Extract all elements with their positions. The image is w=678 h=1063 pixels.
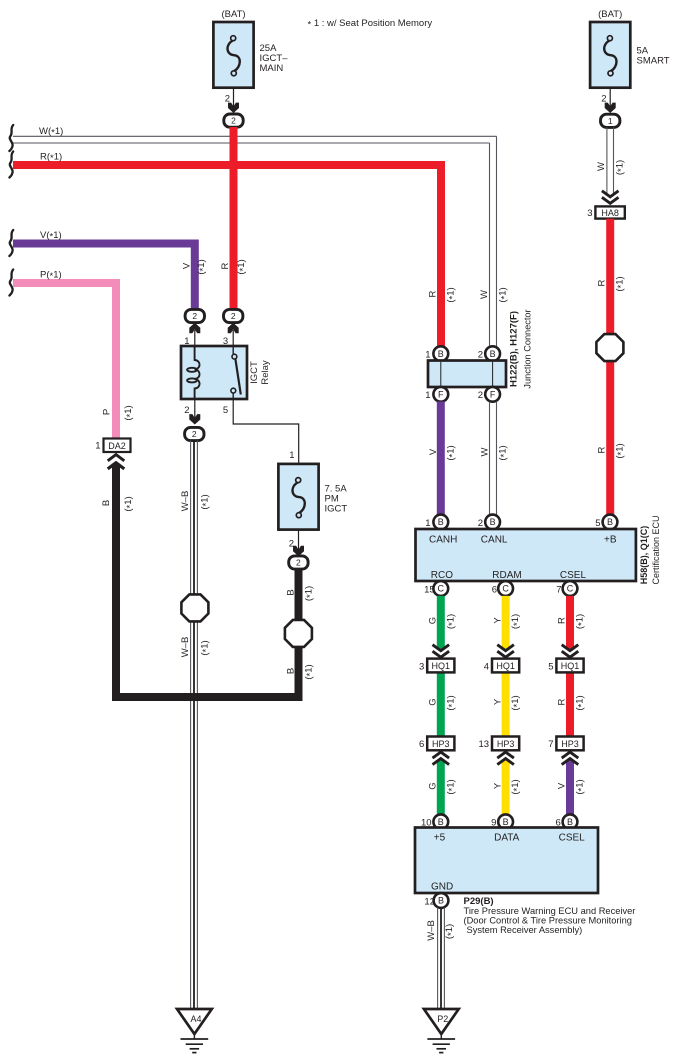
wire V purple from junction to ECU CANH [437, 402, 445, 516]
svg-text:2: 2 [192, 429, 197, 439]
svg-text:C: C [438, 584, 445, 594]
svg-text:(*1): (*1) [575, 779, 588, 794]
svg-text:R: R [596, 446, 607, 453]
svg-text:2: 2 [192, 311, 197, 321]
svg-text:(*1): (*1) [615, 443, 628, 458]
svg-text:C: C [502, 584, 509, 594]
arrow into oval at relay pin 1 [189, 323, 200, 333]
connector oval 2 above relay pin 1 [185, 309, 204, 322]
svg-text:2: 2 [231, 116, 236, 126]
connector DA2 [104, 439, 131, 453]
svg-text:6: 6 [419, 739, 424, 750]
svg-text:HA8: HA8 [601, 208, 619, 218]
svg-text:(*1): (*1) [445, 695, 458, 710]
wire V purple segment to TPWS CSEL [566, 751, 574, 815]
svg-text:(*1): (*1) [575, 614, 588, 629]
svg-text:W: W [596, 162, 607, 171]
continuation mark for V wire [9, 230, 13, 256]
svg-text:B: B [490, 349, 496, 359]
relay coil [187, 346, 199, 399]
wire G from ECU RCO column at x=440.8 [437, 596, 445, 815]
svg-text:IGCT: IGCT [325, 504, 348, 515]
chevron into HQ1 column 3 [433, 645, 450, 661]
chevron out of HP3 column 7 [562, 748, 579, 764]
wire fuse 7.5A lead [298, 530, 300, 555]
svg-text:(*1): (*1) [510, 614, 523, 629]
arrow into oval at relay pin 3 [228, 323, 239, 333]
svg-text:5: 5 [548, 661, 553, 672]
svg-text:R: R [220, 262, 231, 269]
connector HP3 column 13 [492, 737, 519, 751]
svg-text:5: 5 [223, 405, 228, 416]
svg-text:B: B [285, 589, 296, 595]
svg-text:1: 1 [289, 450, 294, 461]
svg-text:V: V [557, 782, 568, 789]
relay IGCT box [181, 346, 247, 399]
svg-text:Tire Pressure Warning ECU and: Tire Pressure Warning ECU and Receiver [464, 906, 636, 916]
fuse 5A SMART [590, 22, 630, 88]
TPWS ECU pin circle 6B [563, 814, 578, 829]
fuse 7.5A PM IGCT [278, 464, 318, 530]
svg-text:R(*1): R(*1) [40, 152, 62, 165]
svg-text:W–B: W–B [426, 920, 437, 941]
connector oval 2 below relay pin 2 [185, 427, 204, 440]
arrow into oval below relay pin 2 [189, 414, 200, 424]
svg-text:13: 13 [479, 739, 490, 750]
svg-text:R: R [428, 290, 439, 297]
wire W white from junction to ECU CANL [490, 402, 497, 516]
svg-text:Y: Y [492, 617, 503, 624]
svg-text:+B: +B [604, 535, 617, 546]
svg-text:DATA: DATA [494, 833, 520, 844]
svg-text:2: 2 [478, 390, 483, 401]
svg-text:CSEL: CSEL [560, 570, 587, 581]
svg-text:R: R [596, 279, 607, 286]
svg-text:CANL: CANL [481, 535, 508, 546]
chevron out of HP3 column 13 [497, 748, 514, 764]
svg-text:RDAM: RDAM [492, 570, 521, 581]
noise filter octagon on B wire [285, 620, 312, 647]
svg-text:W–B: W–B [180, 637, 191, 658]
wire R(*1) red horizontal and down to junction connector [13, 165, 441, 347]
relay switch [231, 346, 241, 399]
svg-text:Relay: Relay [260, 360, 271, 385]
svg-text:W–B: W–B [180, 491, 191, 512]
wire V(*1) purple horizontal and down to relay [13, 244, 195, 311]
TPWS ECU pin circle 12B GND [434, 893, 449, 908]
chevron connector into HA8 [602, 191, 619, 207]
svg-text:IGCT: IGCT [249, 361, 260, 384]
wire R from ECU RCO column at x=570.0 [566, 596, 574, 751]
arrow into connector [605, 103, 616, 113]
wire W-B from TPWS ECU GND to ground P2 [438, 908, 445, 1009]
svg-text:(*1): (*1) [123, 405, 136, 420]
continuation mark for P wire [9, 270, 13, 296]
Certification ECU box H58(B) Q1(C) [416, 529, 636, 581]
connector HP3 column 6 [427, 737, 454, 751]
svg-text:H122(B), H127(F): H122(B), H127(F) [508, 311, 519, 387]
wire W-B white-black from relay to ground A4 [191, 441, 198, 1010]
svg-text:3: 3 [419, 661, 424, 672]
svg-text:(*1): (*1) [303, 664, 316, 679]
chevron out of HP3 column 6 [433, 748, 450, 764]
svg-text:P2: P2 [437, 1014, 448, 1024]
svg-text:(*1): (*1) [615, 276, 628, 291]
svg-text:(*1): (*1) [510, 779, 523, 794]
svg-text:(Door Control & Tire Pressure: (Door Control & Tire Pressure Monitoring [464, 916, 632, 926]
svg-text:3: 3 [587, 208, 592, 219]
svg-text:RCO: RCO [431, 570, 453, 581]
svg-text:5: 5 [595, 518, 600, 529]
ECU pin circle 1B CANH [433, 515, 448, 530]
svg-text:(*1): (*1) [199, 640, 212, 655]
svg-text:B: B [438, 817, 444, 827]
svg-text:(*1): (*1) [303, 586, 316, 601]
svg-text:1: 1 [425, 349, 430, 360]
continuation mark for R wire [9, 152, 13, 178]
wire B black from DA2 down, right, and up to fuse 7.5A oval [116, 464, 299, 698]
svg-text:(*1): (*1) [445, 779, 458, 794]
junction connector pin circle 2F [485, 387, 500, 402]
wire relay pin2 stub [194, 399, 196, 424]
svg-text:R: R [557, 698, 568, 705]
svg-text:H58(B), Q1(C): H58(B), Q1(C) [639, 526, 649, 585]
TPWS ECU pin circle 9B [498, 814, 513, 829]
svg-text:SMART: SMART [637, 56, 670, 67]
svg-text:B: B [490, 517, 496, 527]
svg-text:V: V [181, 262, 192, 269]
svg-text:(*1): (*1) [446, 445, 459, 460]
svg-text:(*1): (*1) [497, 445, 510, 460]
svg-text:HQ1: HQ1 [561, 661, 580, 671]
wire W(*1) white horizontal from left [13, 135, 497, 137]
svg-text:(*1): (*1) [445, 614, 458, 629]
svg-text:(BAT): (BAT) [221, 9, 245, 20]
ECU pin circle 15C RCO [433, 581, 448, 596]
svg-text:DA2: DA2 [108, 441, 126, 451]
svg-text:6: 6 [492, 584, 497, 595]
TPWS ECU pin circle 10B [433, 814, 448, 829]
connector oval 2 below fuse 25A [224, 114, 243, 127]
wire Y from ECU RCO column at x=505.6 [502, 596, 510, 815]
svg-text:W: W [479, 447, 490, 456]
svg-text:7: 7 [548, 739, 553, 750]
svg-text:Junction Connector: Junction Connector [522, 309, 532, 388]
svg-text:* 1 : w/ Seat Position Memory: * 1 : w/ Seat Position Memory [308, 18, 433, 31]
svg-text:1: 1 [95, 441, 100, 452]
svg-text:Y: Y [492, 698, 503, 705]
svg-text:(*1): (*1) [123, 496, 136, 511]
svg-text:MAIN: MAIN [260, 63, 284, 74]
svg-text:GND: GND [431, 882, 453, 893]
svg-text:P: P [102, 409, 113, 415]
ECU pin circle 7C CSEL [563, 581, 578, 596]
svg-text:V(*1): V(*1) [40, 230, 62, 243]
ground A4 [177, 1009, 212, 1053]
svg-text:2: 2 [296, 558, 301, 568]
svg-text:G: G [428, 617, 439, 624]
svg-text:R: R [557, 617, 568, 624]
svg-text:B: B [438, 896, 444, 906]
ECU pin circle 5B +B [603, 515, 618, 530]
connector HQ1 column 4 [492, 659, 519, 673]
svg-text:(*1): (*1) [498, 287, 511, 302]
svg-text:B: B [438, 349, 444, 359]
arrow into connector [228, 103, 239, 113]
svg-text:2: 2 [478, 349, 483, 360]
wire - fuse 5A lead to connector [609, 88, 611, 111]
ground P2 [424, 1009, 459, 1053]
svg-text:(BAT): (BAT) [598, 9, 622, 20]
svg-text:HP3: HP3 [432, 739, 450, 749]
connector HP3 column 7 [556, 737, 583, 751]
wire R red vertical from fuse 25A to relay [230, 127, 238, 310]
svg-text:(*1): (*1) [615, 160, 628, 175]
svg-text:1: 1 [425, 390, 430, 401]
svg-text:G: G [428, 782, 439, 789]
chevron into HQ1 column 5 [562, 645, 579, 661]
noise filter octagon on W-B wire [181, 594, 208, 621]
svg-text:CSEL: CSEL [559, 833, 586, 844]
svg-text:2: 2 [184, 405, 189, 416]
svg-text:(*1): (*1) [575, 695, 588, 710]
svg-text:4: 4 [484, 661, 489, 672]
svg-text:B: B [285, 668, 296, 674]
svg-text:7: 7 [556, 584, 561, 595]
arrow into oval below fuse 7.5A [293, 546, 304, 556]
connector HA8 [595, 206, 624, 218]
svg-text:(*1): (*1) [444, 924, 457, 939]
svg-text:Certification ECU: Certification ECU [651, 515, 661, 584]
svg-text:B: B [101, 500, 112, 506]
fuse 25A IGCT-MAIN [213, 22, 253, 88]
svg-text:1: 1 [425, 518, 430, 529]
svg-text:(*1): (*1) [446, 287, 459, 302]
wire R red from HA8 to ECU +B [606, 219, 614, 515]
chevron into HQ1 column 4 [497, 645, 514, 661]
svg-text:B: B [438, 517, 444, 527]
connector oval 2 below fuse 7.5A [289, 556, 308, 569]
svg-text:HQ1: HQ1 [496, 661, 515, 671]
svg-text:W: W [479, 290, 490, 299]
chevron connector into DA2 [108, 455, 125, 469]
svg-text:G: G [428, 698, 439, 705]
connector oval 2 above relay pin 3 [224, 309, 243, 322]
svg-text:(*1): (*1) [236, 259, 249, 274]
Tire Pressure Warning ECU box P29(B) [415, 828, 598, 894]
svg-text:F: F [438, 390, 444, 400]
svg-text:(*1): (*1) [510, 695, 523, 710]
wire W white from fuse 5A to HA8 [607, 127, 614, 206]
svg-text:+5: +5 [434, 833, 446, 844]
junction connector H122(B) H127(F) box [428, 361, 506, 388]
junction connector pin circle 1F [433, 387, 448, 402]
connector HQ1 column 5 [556, 659, 583, 673]
wire from relay pin 5 to fuse 7.5A [233, 399, 299, 464]
svg-text:F: F [490, 390, 496, 400]
svg-text:B: B [607, 517, 613, 527]
svg-text:B: B [567, 817, 573, 827]
wire P(*1) pink horizontal and down to DA2 [13, 283, 116, 439]
svg-text:P(*1): P(*1) [40, 270, 62, 283]
svg-text:1: 1 [608, 116, 613, 126]
svg-text:W(*1): W(*1) [39, 126, 63, 139]
svg-text:B: B [503, 817, 509, 827]
svg-text:A4: A4 [190, 1014, 201, 1024]
junction connector pin circle 2B [485, 346, 500, 361]
svg-text:2: 2 [478, 518, 483, 529]
svg-text:(*1): (*1) [199, 494, 212, 509]
svg-text:HP3: HP3 [497, 739, 515, 749]
connector HQ1 column 3 [427, 659, 454, 673]
svg-text:2: 2 [231, 311, 236, 321]
wire W vertical down to junction connector [496, 136, 498, 347]
svg-text:C: C [567, 584, 574, 594]
noise filter octagon on R wire [596, 334, 623, 361]
svg-text:HP3: HP3 [561, 739, 579, 749]
wire relay pin1 stub [194, 330, 196, 346]
svg-text:HQ1: HQ1 [432, 661, 451, 671]
svg-text:V: V [428, 448, 439, 455]
connector oval 1 below fuse 5A [601, 114, 620, 127]
svg-text:Y: Y [492, 782, 503, 789]
wire - fuse 25A lead to connector [233, 88, 235, 112]
svg-text:CANH: CANH [429, 535, 457, 546]
junction connector pin circle 1B [433, 346, 448, 361]
continuation mark for W wire [9, 125, 13, 151]
ECU pin circle 6C RDAM [498, 581, 513, 596]
svg-text:(*1): (*1) [196, 259, 209, 274]
svg-text:System Receiver Assembly): System Receiver Assembly) [467, 925, 583, 935]
ECU pin circle 2B CANL [485, 515, 500, 530]
